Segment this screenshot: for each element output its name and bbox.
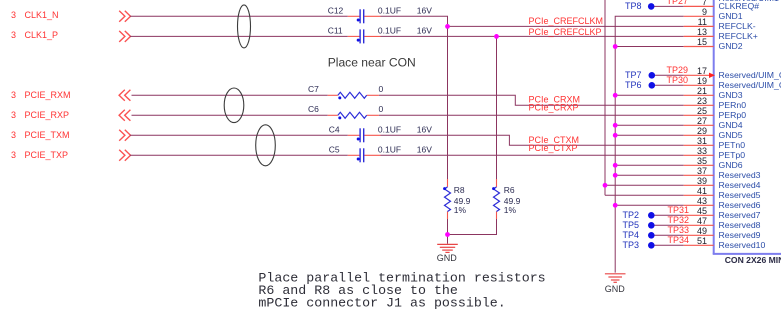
svg-text:GND: GND	[437, 253, 458, 263]
svg-text:TP3: TP3	[623, 240, 640, 250]
svg-text:mPCIe connector J1 as possible: mPCIe connector J1 as possible.	[258, 296, 505, 311]
pin 29 GND5	[697, 126, 743, 140]
diff-pair ellipse CLK	[238, 5, 251, 48]
junction GND2	[613, 44, 618, 49]
capacitor C5	[329, 145, 433, 163]
test point TP4	[623, 230, 655, 240]
wire TP6 to pin19	[652, 84, 684, 86]
svg-text:Reserved4: Reserved4	[719, 180, 761, 190]
svg-text:31: 31	[697, 136, 707, 146]
svg-text:PCIE_RXM: PCIE_RXM	[25, 90, 71, 100]
pin 37 stub	[684, 174, 714, 176]
junction R6 top	[494, 34, 499, 39]
wire TP7 to pin17	[652, 74, 684, 76]
svg-text:9: 9	[702, 7, 707, 17]
svg-text:C4: C4	[329, 125, 340, 135]
pin 13 stub	[684, 35, 714, 37]
svg-text:0: 0	[379, 84, 384, 94]
svg-text:15: 15	[697, 37, 707, 47]
svg-text:TP8: TP8	[625, 1, 642, 11]
resistor R6	[492, 179, 521, 219]
wire PCIE_RXP row	[132, 114, 684, 116]
svg-text:0.1UF: 0.1UF	[378, 26, 401, 36]
test point TP8	[625, 1, 655, 11]
junction R8 top	[445, 24, 450, 29]
svg-text:R8: R8	[454, 185, 465, 195]
svg-text:PCIE_TXP: PCIE_TXP	[25, 150, 69, 160]
svg-text:CON 2X26 MINIPCIE: CON 2X26 MINIPCIE	[725, 255, 781, 265]
wire CLK1_P row	[130, 35, 684, 37]
wire GND stem left	[447, 235, 449, 244]
svg-text:47: 47	[697, 216, 707, 226]
resistor C7 (0 ohm)	[308, 84, 384, 99]
test point TP7	[625, 70, 655, 80]
wire pin41 Reserved5	[605, 194, 684, 196]
pin 21 stub	[684, 94, 714, 96]
wire pin29 GND5	[615, 134, 684, 136]
pin 27 GND4	[697, 116, 743, 130]
svg-text:PETn0: PETn0	[719, 140, 746, 150]
junction Reserved3	[613, 173, 618, 178]
svg-text:49: 49	[697, 226, 707, 236]
svg-text:45: 45	[697, 206, 707, 216]
svg-text:23: 23	[697, 96, 707, 106]
wire TP2 to pin45	[651, 214, 683, 216]
pin 45 stub	[684, 214, 714, 216]
pin 31 PETn0	[697, 136, 745, 150]
pin 51 stub	[684, 244, 714, 246]
wire UIM vertical	[604, 0, 606, 195]
pin 41 Reserved5	[697, 186, 761, 200]
port arrow pin17	[709, 73, 715, 78]
pin 9 stub	[684, 15, 714, 17]
pin 9 GND1	[702, 7, 743, 21]
pin 29 stub	[684, 134, 714, 136]
svg-text:C11: C11	[328, 26, 343, 36]
svg-text:C6: C6	[308, 104, 319, 114]
pin 51 Reserved10	[697, 236, 766, 250]
pin 7 stub	[684, 5, 714, 7]
svg-text:Reserved9: Reserved9	[719, 230, 761, 240]
resistor R8	[443, 179, 471, 219]
svg-text:Reserved7: Reserved7	[719, 210, 761, 220]
wire pin43 Reserved6	[615, 204, 684, 206]
svg-text:0.1UF: 0.1UF	[378, 125, 401, 135]
junction Reserved6	[613, 203, 618, 208]
pin 15 stub	[684, 46, 714, 48]
pin 31 stub	[684, 144, 714, 146]
port CLK1_N	[11, 10, 131, 22]
svg-text:Reserved6: Reserved6	[719, 200, 761, 210]
pin 13 REFCLK+	[697, 27, 758, 41]
svg-text:Place near CON: Place near CON	[328, 56, 416, 70]
svg-text:TP7: TP7	[625, 70, 642, 80]
svg-text:29: 29	[697, 126, 707, 136]
svg-text:REFCLK-: REFCLK-	[719, 21, 756, 31]
wire PCIE_TXP row	[130, 154, 684, 156]
wire TP4 to pin49	[651, 234, 683, 236]
svg-text:GND3: GND3	[719, 90, 743, 100]
svg-text:CLKREQ#: CLKREQ#	[719, 1, 760, 11]
wire pin37 Reserved3	[615, 174, 684, 176]
svg-text:19: 19	[697, 76, 707, 86]
capacitor C12	[328, 6, 433, 24]
svg-text:37: 37	[697, 166, 707, 176]
pin 43 stub	[684, 204, 714, 206]
ground symbol left	[437, 244, 458, 252]
pin 19 stub	[684, 84, 714, 86]
svg-text:PCIe_CREFCLKM: PCIe_CREFCLKM	[529, 16, 604, 26]
wire pin27 GND4	[615, 124, 684, 126]
svg-text:3: 3	[11, 30, 16, 40]
svg-text:C7: C7	[308, 84, 319, 94]
svg-text:PETp0: PETp0	[719, 150, 746, 160]
svg-text:16V: 16V	[417, 26, 432, 36]
diff-pair ellipse TX	[256, 125, 276, 166]
pin 39 Reserved4	[697, 176, 761, 190]
junction GND6	[613, 163, 618, 168]
svg-text:GND4: GND4	[719, 120, 743, 130]
pin 41 stub	[684, 194, 714, 196]
svg-text:CLK1_N: CLK1_N	[25, 10, 59, 20]
pin 35 GND6	[697, 156, 743, 170]
connector J1 body bottom	[713, 253, 781, 255]
svg-text:TP2: TP2	[623, 210, 640, 220]
svg-text:51: 51	[697, 236, 707, 246]
port PCIE_TXP	[11, 150, 131, 161]
pin 23 stub	[684, 104, 714, 106]
svg-text:3: 3	[11, 10, 16, 20]
pin 17 Reserved/UIM_C8	[697, 66, 781, 80]
wire PCIE_RXM row	[132, 95, 684, 105]
junction GND3	[613, 93, 618, 98]
svg-text:0: 0	[379, 104, 384, 114]
svg-text:0.1UF: 0.1UF	[378, 6, 401, 16]
svg-text:REFCLK+: REFCLK+	[719, 31, 758, 41]
wire R6 branch down	[496, 36, 498, 179]
svg-text:PCIe_CREFCLKP: PCIe_CREFCLKP	[529, 27, 602, 37]
svg-text:PERp0: PERp0	[719, 110, 747, 120]
ground symbol right	[605, 274, 626, 283]
capacitor C4	[329, 125, 433, 143]
svg-text:33: 33	[697, 146, 707, 156]
pin 11 stub	[684, 25, 714, 27]
junction R8 bottom GND	[445, 232, 450, 237]
wire pin39 Reserved4	[605, 184, 684, 186]
svg-text:3: 3	[11, 130, 16, 140]
wire CLK1_N row	[130, 16, 684, 26]
svg-text:C5: C5	[329, 145, 340, 155]
pin 33 PETp0	[697, 146, 745, 160]
svg-text:PCIe_CTXP: PCIe_CTXP	[529, 143, 578, 153]
pin 47 Reserved8	[697, 216, 761, 230]
svg-text:17: 17	[697, 66, 707, 76]
svg-text:Reserved3: Reserved3	[719, 170, 761, 180]
svg-text:GND6: GND6	[719, 160, 743, 170]
junction Reserved4	[603, 183, 608, 188]
svg-text:Reserved/UIM_C8: Reserved/UIM_C8	[719, 70, 781, 80]
svg-text:Reserved10: Reserved10	[719, 240, 766, 250]
test point TP6	[625, 80, 655, 90]
svg-text:1%: 1%	[504, 205, 517, 215]
svg-text:0.1UF: 0.1UF	[378, 145, 401, 155]
svg-text:13: 13	[697, 27, 707, 37]
pin 11 REFCLK-	[698, 17, 756, 31]
pin 37 Reserved3	[697, 166, 761, 180]
svg-text:TP6: TP6	[625, 80, 642, 90]
capacitor C11	[328, 26, 433, 44]
pin 47 stub	[684, 224, 714, 226]
svg-text:R6: R6	[504, 185, 515, 195]
wire GND bus vertical	[615, 16, 684, 272]
connector J1 body edge	[713, 0, 715, 254]
wire PCIE_TXM row	[130, 135, 684, 145]
wire R8 bottom to GND junction	[447, 219, 449, 235]
port PCIE_RXP	[11, 110, 130, 121]
svg-text:TP34: TP34	[668, 235, 690, 245]
svg-text:1%: 1%	[454, 205, 467, 215]
pin 33 stub	[684, 154, 714, 156]
svg-text:3: 3	[11, 90, 16, 100]
svg-text:GND5: GND5	[719, 130, 743, 140]
svg-text:11: 11	[698, 17, 707, 27]
pin 7 CLKREQ#	[702, 0, 759, 11]
test point TP5	[623, 220, 655, 230]
wire TP3 to pin51	[651, 244, 683, 246]
pin 23 PERn0	[697, 96, 746, 110]
pin 25 PERp0	[697, 106, 746, 120]
wire TP5 to pin47	[651, 224, 683, 226]
svg-text:Reserved5: Reserved5	[719, 190, 761, 200]
port PCIE_RXM	[11, 90, 130, 101]
svg-text:41: 41	[697, 186, 707, 196]
svg-text:GND2: GND2	[719, 41, 743, 51]
pin 39 stub	[684, 184, 714, 186]
wire pin21 GND3	[615, 94, 684, 96]
wire R6 bottom	[448, 219, 497, 235]
pin 49 stub	[684, 234, 714, 236]
svg-text:C12: C12	[328, 6, 344, 16]
pin 27 stub	[684, 124, 714, 126]
svg-text:PCIe_CRXP: PCIe_CRXP	[529, 103, 579, 113]
pin 21 GND3	[697, 86, 743, 100]
pin 15 GND2	[697, 37, 743, 51]
diff-pair ellipse RX	[224, 88, 244, 123]
svg-text:16V: 16V	[417, 145, 432, 155]
svg-text:PCIE_RXP: PCIE_RXP	[25, 110, 70, 120]
port CLK1_P	[11, 30, 131, 42]
pin 17 stub	[684, 74, 714, 76]
wire R8 branch down	[447, 26, 449, 179]
svg-text:TP32: TP32	[668, 215, 690, 225]
port PCIE_TXM	[11, 130, 131, 141]
junction GND5	[613, 133, 618, 138]
svg-text:GND1: GND1	[719, 11, 743, 21]
svg-text:TP27: TP27	[667, 0, 689, 6]
svg-text:GND: GND	[605, 284, 626, 294]
wire TP8 to pin7	[651, 5, 684, 7]
svg-text:Reserved8: Reserved8	[719, 220, 761, 230]
pin 35 stub	[684, 164, 714, 166]
svg-text:CLK1_P: CLK1_P	[25, 30, 59, 40]
junction GND4	[613, 123, 618, 128]
pin 43 Reserved6	[697, 196, 761, 210]
svg-text:TP33: TP33	[668, 225, 690, 235]
pin 25 stub	[684, 114, 714, 116]
svg-text:25: 25	[697, 106, 707, 116]
test point TP3	[623, 240, 655, 250]
svg-text:TP30: TP30	[667, 75, 689, 85]
svg-text:TP31: TP31	[668, 205, 690, 215]
test point TP2	[623, 210, 655, 220]
wire pin15 GND2	[615, 46, 684, 48]
svg-text:3: 3	[11, 150, 16, 160]
svg-text:21: 21	[697, 86, 707, 96]
svg-text:PCIE_TXM: PCIE_TXM	[25, 130, 70, 140]
svg-text:16V: 16V	[417, 125, 432, 135]
svg-text:Reserved/UIM_C4: Reserved/UIM_C4	[719, 80, 781, 90]
svg-text:TP4: TP4	[623, 230, 640, 240]
svg-text:39: 39	[697, 176, 707, 186]
wire pin35 GND6	[615, 164, 684, 166]
svg-text:3: 3	[11, 110, 16, 120]
svg-text:TP29: TP29	[667, 65, 689, 75]
resistor C6 (0 ohm)	[308, 104, 384, 119]
svg-text:PERn0: PERn0	[719, 100, 747, 110]
pin 45 Reserved7	[697, 206, 761, 220]
svg-text:TP5: TP5	[623, 220, 640, 230]
pin 49 Reserved9	[697, 226, 761, 240]
svg-text:43: 43	[697, 196, 707, 206]
svg-text:27: 27	[697, 116, 707, 126]
svg-text:16V: 16V	[417, 6, 432, 16]
pin 19 Reserved/UIM_C4	[697, 76, 781, 90]
svg-text:35: 35	[697, 156, 707, 166]
